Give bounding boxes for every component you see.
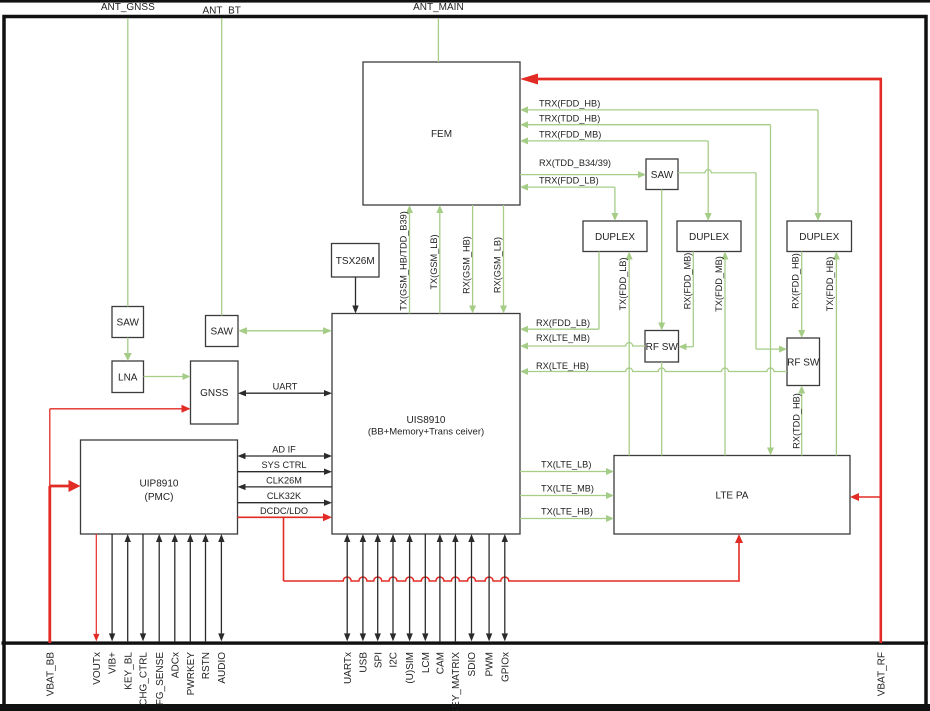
svg-text:RX(LTE_MB): RX(LTE_MB) (536, 333, 590, 343)
terminal label RSTN (201, 652, 212, 679)
svg-text:SPI: SPI (373, 652, 384, 668)
svg-text:LTE PA: LTE PA (716, 490, 749, 501)
terminal label CAM (436, 652, 447, 674)
svg-text:UARTx: UARTx (343, 652, 354, 684)
wire TX(FDD_LB): LTE PA to DUPLEX (618, 252, 633, 456)
svg-text:TX(FDD_MB): TX(FDD_MB) (714, 256, 724, 312)
pin USB (UIS8910) (360, 534, 366, 641)
svg-text:SAW: SAW (211, 327, 234, 338)
block FEM (363, 62, 520, 205)
wire RX(GSM_LB) (492, 205, 507, 314)
svg-text:TX(GSM_LB): TX(GSM_LB) (429, 234, 439, 289)
block LNA (112, 361, 144, 393)
svg-text:LCM: LCM (421, 652, 432, 673)
wire RX(FDD_HB): DUPLEX to RF SW (791, 252, 806, 339)
svg-text:TSX26M: TSX26M (336, 256, 375, 267)
wire RX(FDD_LB): DUPLEX to UIS8910 (520, 252, 599, 333)
svg-text:(U)SIM: (U)SIM (405, 652, 416, 684)
svg-text:USB: USB (359, 652, 370, 673)
svg-text:VBAT_RF: VBAT_RF (876, 652, 887, 696)
power net VBAT_RF (520, 74, 882, 644)
terminal label FG_SENSE (155, 652, 166, 706)
svg-text:KEY_MATRIX: KEY_MATRIX (451, 652, 462, 711)
svg-text:GNSS: GNSS (200, 388, 229, 399)
svg-text:TRX(TDD_HB): TRX(TDD_HB) (539, 113, 600, 123)
svg-text:SAW: SAW (117, 318, 140, 329)
svg-text:VBAT_BB: VBAT_BB (45, 652, 56, 697)
terminal label KEY_MATRIX (451, 652, 462, 711)
svg-text:DUPLEX: DUPLEX (799, 232, 839, 243)
pin SPI (UIS8910) (375, 534, 381, 641)
svg-text:SAW: SAW (651, 170, 674, 181)
terminal label LCM (421, 652, 432, 673)
svg-text:(PMC): (PMC) (145, 492, 174, 503)
wire RX(LTE_MB): RF SW to UIS8910 (520, 333, 645, 350)
wire CLK26M (238, 475, 333, 490)
pin PWM (UIS8910) (486, 534, 492, 641)
svg-text:(BB+Memory+Trans ceiver): (BB+Memory+Trans ceiver) (368, 427, 484, 438)
power output VOUTx (93, 534, 99, 641)
svg-text:CHG_CTRL: CHG_CTRL (139, 652, 150, 706)
terminal label PWRKEY (186, 652, 197, 696)
wire TRX(FDD_HB): FEM to DUPLEX HB (520, 99, 822, 222)
wire TRX(FDD_LB): FEM to DUPLEX LB (520, 176, 618, 221)
svg-text:RX(TDD_B34/39): RX(TDD_B34/39) (539, 158, 611, 168)
wire TX(GSM_HB/TDD_B39) (398, 205, 413, 314)
wire RX(TDD_HB): LTE PA to RF SW (792, 386, 806, 456)
block LTE PA (614, 456, 850, 535)
wire LNA to GNSS (144, 373, 191, 380)
wire ANT_GNSS antenna feed (127, 18, 129, 307)
block SAW (BT path) (206, 316, 239, 347)
svg-text:RX(FDD_LB): RX(FDD_LB) (536, 318, 590, 328)
svg-text:DUPLEX: DUPLEX (595, 232, 635, 243)
svg-text:RX(GSM_HB): RX(GSM_HB) (461, 236, 471, 294)
svg-text:TRX(FDD_MB): TRX(FDD_MB) (539, 130, 601, 140)
power branch VBAT_RF to LTE PA (850, 493, 881, 501)
svg-text:TRX(FDD_HB): TRX(FDD_HB) (539, 99, 600, 109)
svg-text:KEY_BL: KEY_BL (123, 652, 134, 690)
svg-text:FEM: FEM (431, 129, 452, 140)
wire RX(TDD_B34/39): FEM to SAW (520, 158, 646, 178)
wire AD IF (238, 444, 333, 459)
svg-text:TX(GSM_HB/TDD_B39): TX(GSM_HB/TDD_B39) (398, 211, 408, 311)
pin CAM (UIS8910) (437, 534, 443, 641)
svg-text:TX(FDD_LB): TX(FDD_LB) (618, 257, 628, 310)
wire SAW to LNA (124, 338, 132, 362)
block UIS8910 (BB+Memory+Transceiver) (332, 314, 520, 535)
pin RSTN (UIP8910) (202, 534, 208, 641)
wire UART: GNSS to UIS8910 (238, 382, 332, 397)
wire TX(FDD_HB): LTE PA to DUPLEX (825, 252, 840, 456)
svg-text:TX(LTE_MB): TX(LTE_MB) (541, 484, 594, 494)
svg-text:UART: UART (273, 382, 298, 392)
pin GPIOx (UIS8910) (502, 534, 508, 641)
wire ANT_BT antenna feed (221, 18, 223, 316)
svg-text:ADCx: ADCx (170, 652, 181, 678)
svg-text:PWM: PWM (485, 652, 496, 676)
terminal label I2C (389, 652, 400, 668)
wire TX(LTE_MB): UIS8910 to LTE PA (520, 484, 614, 500)
terminal label VBAT_BB (45, 652, 56, 697)
power net DCDC/LDO: UIP8910 to UIS8910 (238, 506, 333, 521)
svg-text:RX(GSM_LB): RX(GSM_LB) (492, 237, 502, 293)
wire RX(LTE_HB): RF SW to UIS8910 (520, 361, 787, 375)
wire BT: UIS8910 to SAW (238, 327, 332, 334)
pin KEY_MATRIX (UIS8910) (452, 534, 458, 641)
top bar (0, 0, 930, 3)
wire TX(LTE_LB): UIS8910 to LTE PA (520, 460, 614, 476)
svg-text:ANT_GNSS: ANT_GNSS (101, 2, 155, 13)
svg-text:VIB+: VIB+ (108, 652, 119, 674)
wire ANT_MAIN antenna feed (437, 18, 439, 62)
power branch VBAT_BB to GNSS (50, 405, 191, 413)
svg-text:TX(FDD_HB): TX(FDD_HB) (825, 257, 835, 312)
wire TX(GSM_LB) (429, 205, 444, 314)
power branch VBAT_BB to UIP8910 (50, 480, 81, 492)
terminal label VBAT_RF (876, 652, 887, 696)
terminal label AUDIO (217, 652, 228, 684)
pin KEY_BL (UIP8910) (125, 534, 131, 641)
wire SAW to RF SW HB (678, 170, 787, 353)
svg-text:PWRKEY: PWRKEY (186, 652, 197, 696)
power net VBAT_BB (48, 409, 51, 643)
block DUPLEX (LB) (583, 221, 647, 252)
svg-text:RX(LTE_HB): RX(LTE_HB) (536, 361, 589, 371)
terminal label KEY_BL (123, 652, 134, 690)
wire RF SW to LTE PA (TDD B34/39) (661, 362, 663, 456)
wire RX(FDD_MB): DUPLEX to RF SW (679, 252, 694, 351)
block TSX26M (332, 244, 380, 278)
terminal label UARTx (343, 652, 354, 684)
pin PWRKEY (UIP8910) (187, 534, 193, 641)
svg-text:RX(FDD_MB): RX(FDD_MB) (682, 253, 692, 310)
bottom bar (0, 704, 930, 711)
terminal label VOUTx (92, 652, 103, 685)
svg-text:GPIOx: GPIOx (500, 652, 511, 682)
svg-text:UIS8910: UIS8910 (407, 415, 446, 426)
svg-text:SYS CTRL: SYS CTRL (262, 460, 307, 470)
block DUPLEX (HB) (787, 221, 852, 252)
net label ANT_MAIN (413, 2, 464, 13)
bottom connector rail (2, 641, 929, 644)
svg-text:RSTN: RSTN (201, 652, 212, 679)
terminal label ADCx (170, 652, 181, 678)
pin AUDIO (UIP8910) (218, 534, 224, 641)
wire TRX(TDD_HB): FEM to LTE PA (520, 113, 774, 455)
pin UARTx (UIS8910) (344, 534, 350, 641)
power rail DCDC/LDO to LTE PA (284, 517, 744, 582)
svg-text:DUPLEX: DUPLEX (689, 232, 729, 243)
terminal label SDIO (467, 652, 478, 677)
svg-text:VOUTx: VOUTx (92, 652, 103, 685)
terminal label PWM (485, 652, 496, 676)
svg-text:RF SW: RF SW (646, 342, 679, 353)
block UIP8910 (PMC) (81, 440, 238, 534)
terminal label VIB+ (108, 652, 119, 674)
pin LCM (UIS8910) (422, 534, 428, 641)
pin ADCx (UIP8910) (172, 534, 178, 641)
svg-text:LNA: LNA (118, 372, 138, 383)
block RF SW (MB) (645, 331, 679, 363)
wire TRX(FDD_MB): FEM to DUPLEX MB (520, 130, 712, 222)
svg-text:CLK26M: CLK26M (266, 475, 302, 485)
block SAW (GNSS path) (112, 307, 144, 338)
block GNSS (191, 361, 239, 424)
terminal label SPI (373, 652, 384, 668)
svg-text:TX(LTE_LB): TX(LTE_LB) (541, 460, 591, 470)
svg-text:TX(LTE_HB): TX(LTE_HB) (541, 507, 593, 517)
pin SDIO (UIS8910) (468, 534, 474, 641)
svg-text:CLK32K: CLK32K (267, 491, 302, 501)
wire SYS CTRL (238, 460, 333, 475)
wire TSX26M clock to UIS8910 (352, 277, 358, 314)
pin FG_SENSE (UIP8910) (156, 534, 162, 641)
block SAW (TDD B34/39 path) (646, 159, 678, 190)
pin VIB+ (UIP8910) (109, 534, 115, 641)
svg-text:AD IF: AD IF (272, 444, 296, 454)
net label ANT_GNSS (101, 2, 155, 13)
terminal label USB (359, 652, 370, 673)
svg-text:SDIO: SDIO (467, 652, 478, 677)
svg-text:FG_SENSE: FG_SENSE (155, 652, 166, 706)
pin I2C (UIS8910) (390, 534, 396, 641)
pin CHG_CTRL (UIP8910) (140, 534, 146, 641)
wire TX(FDD_MB): LTE PA to DUPLEX (714, 252, 729, 456)
svg-text:I2C: I2C (389, 652, 400, 668)
pin (U)SIM (UIS8910) (406, 534, 412, 641)
svg-text:TRX(FDD_LB): TRX(FDD_LB) (539, 176, 599, 186)
svg-text:DCDC/LDO: DCDC/LDO (260, 506, 308, 516)
wire SAW to RF SW (TDD path) (658, 190, 665, 331)
svg-text:UIP8910: UIP8910 (140, 479, 179, 490)
svg-text:ANT_BT: ANT_BT (203, 6, 241, 17)
svg-text:RX(FDD_HB): RX(FDD_HB) (791, 253, 801, 309)
terminal label (U)SIM (405, 652, 416, 684)
wire RX(GSM_HB) (461, 205, 476, 314)
svg-text:RX(TDD_HB): RX(TDD_HB) (792, 393, 802, 449)
svg-text:RF SW: RF SW (787, 357, 820, 368)
wire TX(LTE_HB): UIS8910 to LTE PA (520, 507, 614, 523)
terminal label CHG_CTRL (139, 652, 150, 706)
block RF SW (HB) (787, 338, 820, 386)
net label ANT_BT (203, 6, 241, 17)
terminal label GPIOx (500, 652, 511, 682)
svg-text:AUDIO: AUDIO (217, 652, 228, 684)
block DUPLEX (MB) (677, 221, 741, 252)
svg-text:ANT_MAIN: ANT_MAIN (413, 2, 464, 13)
wire CLK32K (238, 491, 333, 506)
svg-text:CAM: CAM (436, 652, 447, 674)
